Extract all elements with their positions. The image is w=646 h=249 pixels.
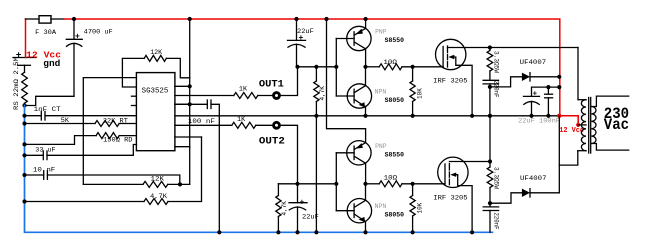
node driver1 out (363, 65, 367, 69)
wire OUT1 up to driver (281, 67, 298, 96)
svg-text:220nF: 220nF (493, 213, 500, 230)
svg-text:100 nF: 100 nF (188, 118, 215, 126)
capacitor 22uF right (532, 87, 560, 96)
transistor Q2 NPN S8050 (347, 84, 371, 108)
wire 4700uF- to gnd node (25, 96, 75, 105)
node +12 distribution (red) (557, 114, 561, 118)
svg-text:220nF: 220nF (493, 81, 500, 98)
capacitor 22uF bottom (297, 184, 299, 203)
svg-text:1nF CT: 1nF CT (34, 106, 61, 114)
transformer T1 secondary (591, 107, 596, 144)
transistor Q4 NPN S8050 (347, 199, 371, 223)
svg-text:OUT2: OUT2 (259, 137, 285, 148)
svg-text:1K: 1K (237, 116, 246, 124)
snubber C 220nF top (483, 79, 498, 81)
resistor 4.7K bottom vert (277, 184, 279, 196)
svg-text:1K: 1K (239, 86, 248, 94)
lower drain row (488, 159, 492, 163)
node gnd-left (22, 103, 26, 107)
svg-text:10Ω: 10Ω (383, 59, 397, 67)
MOSFET Q5 IRF3205 top (436, 39, 466, 69)
base tie column 2 (335, 153, 337, 211)
svg-text:12 Vcc: 12 Vcc (559, 127, 584, 135)
wire drain1 to transformer (577, 48, 579, 100)
snubber R 3.3ohm 5W top (488, 45, 492, 49)
resistor RD 150 ohm (25, 136, 97, 145)
svg-text:PNP: PNP (375, 29, 387, 36)
snubber R 3.3ohm 5W bottom (489, 116, 491, 162)
resistor 10 ohm top (366, 66, 380, 68)
base tie column 1 (335, 39, 337, 97)
drive row 1 (298, 66, 337, 68)
svg-text:150Ω RD: 150Ω RD (103, 137, 132, 145)
svg-text:22K RT: 22K RT (103, 117, 128, 125)
svg-text:3.3Ω5W: 3.3Ω5W (493, 167, 500, 189)
svg-text:10K: 10K (417, 202, 424, 213)
svg-text:S8550: S8550 (385, 37, 404, 44)
diode D1 UF4007 top (490, 77, 522, 87)
wire fuse right (51, 18, 64, 20)
svg-text:Vac: Vac (604, 116, 629, 134)
wire primary-bottom riser (558, 116, 560, 193)
node rail-22uF (294, 17, 298, 21)
resistor RS 22mOhm shunt (24, 65, 26, 72)
svg-text:22uF 100nF: 22uF 100nF (518, 117, 560, 125)
capacitor 22uF top (296, 19, 298, 40)
svg-text:F 30A: F 30A (35, 29, 57, 37)
svg-text:PNP: PNP (375, 143, 387, 150)
capacitor CT 1nF (25, 115, 42, 117)
snubber C 220nF bottom (483, 206, 498, 208)
svg-text:33 uF: 33 uF (35, 146, 55, 154)
resistor 1K out2 (175, 124, 232, 126)
capacitor 10nF (25, 174, 44, 176)
transistor Q3 PNP S8550 (347, 141, 371, 165)
ground rail (blue) (25, 106, 493, 233)
svg-text:4,7K: 4,7K (319, 86, 326, 101)
transformer T1 primary (578, 99, 586, 101)
svg-text:10K: 10K (417, 88, 424, 99)
transformer core (588, 98, 590, 154)
node rail-4700uF (72, 17, 76, 21)
fuse F1 30A (39, 16, 51, 23)
svg-text:IRF 3205: IRF 3205 (433, 195, 467, 203)
transistor Q1 PNP S8550 (347, 26, 371, 50)
svg-text:UF4007: UF4007 (520, 175, 547, 183)
svg-text:12K: 12K (150, 49, 163, 57)
resistor 10 ohm bottom (366, 183, 380, 185)
resistor 10K gate1 (411, 65, 415, 69)
resistor RT 22K (25, 123, 96, 125)
wire IC pin to left column (83, 78, 136, 185)
svg-text:3.3Ω5W: 3.3Ω5W (493, 51, 500, 73)
svg-text:SG3525: SG3525 (142, 88, 169, 96)
wire IC pin row 116 (175, 115, 559, 117)
svg-text:IRF 3205: IRF 3205 (433, 78, 467, 86)
svg-text:NPN: NPN (375, 203, 387, 210)
svg-text:10 nF: 10 nF (33, 166, 55, 174)
battery 12V + plate (13, 57, 36, 59)
terminal OUT2 (274, 122, 280, 128)
svg-text:OUT1: OUT1 (259, 79, 284, 90)
svg-text:gnd: gnd (43, 58, 60, 69)
+12 feed to PNP2 emitter (324, 17, 328, 21)
wire fuse left (26, 18, 40, 20)
resistor 12K feedback top (122, 58, 144, 87)
svg-text:12K: 12K (151, 176, 166, 184)
wire IC pin to 4.7K riser (175, 136, 202, 138)
svg-text:UF4007: UF4007 (520, 59, 547, 67)
wire to center tap (red) (559, 116, 578, 125)
capacitor 100nF (175, 103, 207, 105)
capacitor 33uF (25, 154, 44, 156)
svg-text:10Ω: 10Ω (384, 175, 398, 183)
resistor 10K gate2 (411, 182, 415, 186)
Vcc feed line from rail to IC (189, 19, 191, 184)
+12V rail (red) (64, 19, 560, 116)
wire OUT2 down to driver (281, 125, 298, 184)
wire IC Vcc pin (175, 85, 190, 87)
terminal OUT1 (274, 93, 280, 99)
drive row 2 (278, 183, 336, 185)
resistor 12K bottom (83, 183, 143, 185)
capacitor 100nF right (547, 87, 549, 94)
svg-text:S8550: S8550 (385, 152, 404, 159)
svg-text:4,7K: 4,7K (281, 201, 288, 216)
IC left pin stub 2 (132, 105, 137, 107)
svg-text:+: + (300, 199, 305, 208)
svg-text:+: + (533, 91, 538, 99)
svg-text:S8050: S8050 (385, 212, 404, 219)
MOSFET Q6 IRF3205 bottom (438, 157, 468, 187)
capacitor C1 4700uF (73, 19, 75, 39)
node driver2 out (363, 182, 367, 186)
resistor 1K out1 (175, 95, 234, 97)
svg-text:4700 uF: 4700 uF (84, 29, 113, 37)
svg-text:+: + (75, 32, 80, 41)
resistor 4.7K bottom-left (25, 201, 145, 203)
svg-text:S8050: S8050 (385, 97, 404, 104)
battery 12V - plate (18, 64, 31, 66)
resistor 4.7K vert top (315, 67, 317, 81)
svg-text:NPN: NPN (375, 88, 387, 95)
svg-text:+: + (299, 34, 304, 43)
svg-text:22uF: 22uF (302, 213, 319, 221)
svg-text:4,7K: 4,7K (150, 193, 168, 201)
wire IC pin to 100nF (175, 103, 190, 105)
diode D2 UF4007 bottom (490, 193, 522, 203)
load 230Vac (591, 96, 628, 106)
wire IC pin to 12K riser (175, 146, 190, 148)
IC U1 SG3525 (136, 73, 175, 151)
IC left pin stub 1 (132, 95, 137, 97)
wire battery+ to fuse (red) (25, 19, 27, 58)
node 10nF-12K junction (178, 182, 182, 186)
svg-text:RS 22mΩ 2.5M: RS 22mΩ 2.5M (13, 57, 20, 110)
